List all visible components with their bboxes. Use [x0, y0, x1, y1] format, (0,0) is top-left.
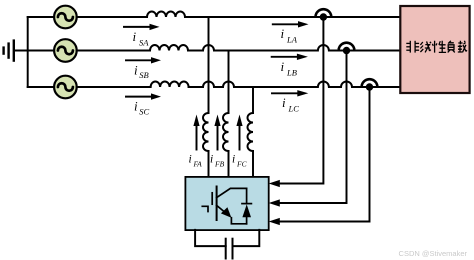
svg-text:i: i — [210, 154, 213, 166]
filter inductor LfC — [248, 113, 254, 151]
svg-text:i: i — [232, 154, 235, 166]
arrow i_LC — [272, 90, 308, 96]
wire drop phase B to filter inductor B — [228, 51, 230, 114]
arrow i_FB — [214, 115, 220, 150]
wire drop phase C to filter inductor C — [252, 87, 254, 113]
svg-text:SC: SC — [139, 106, 149, 116]
current sensor CT A — [316, 9, 331, 21]
svg-text:FA: FA — [193, 160, 203, 169]
svg-text:i: i — [134, 99, 138, 114]
capacitor C1 — [226, 239, 233, 259]
AC source B — [54, 39, 77, 62]
svg-text:CSDN @Stivemaker: CSDN @Stivemaker — [399, 249, 468, 258]
current sensor CT B — [339, 43, 354, 55]
label 非线性负载 (drawn glyphs) — [406, 41, 467, 53]
wire emitter to bottom rail — [231, 218, 246, 224]
arrow i_SC — [126, 93, 161, 99]
wire phase A to load — [185, 16, 400, 18]
converter box U1 — [185, 177, 268, 230]
inductor LsB — [150, 45, 188, 51]
IGBT Q1 gate lead — [202, 206, 208, 211]
svg-text:i: i — [189, 154, 192, 166]
feedback wire C with arrow into converter — [269, 91, 370, 225]
svg-text:i: i — [281, 59, 285, 74]
wire LfB to converter — [228, 151, 230, 177]
IGBT Q1 emitter arrow — [217, 205, 232, 217]
svg-text:i: i — [133, 29, 137, 44]
diode D1 anode lead — [246, 217, 248, 224]
arrow i_SA — [124, 24, 160, 30]
svg-text:i: i — [134, 63, 138, 78]
inductor LsA — [147, 12, 185, 17]
glyph 载 — [458, 41, 467, 53]
diode D1 triangle — [242, 204, 251, 217]
wire bus to source A — [28, 16, 54, 18]
wire LfA to converter — [208, 151, 210, 177]
wire drop phase A to filter inductor A — [208, 17, 210, 113]
wire ground to bus and source B — [15, 50, 55, 52]
arrow i_SB — [126, 57, 161, 63]
current sensor CT C — [362, 79, 377, 91]
arrow i_FC — [236, 115, 242, 150]
IGBT Q1 main bar — [216, 187, 218, 221]
arrow i_FA — [193, 115, 199, 150]
wire phase B to load with hops at x=208.5 and x=323.4 — [188, 45, 400, 51]
svg-text:SB: SB — [139, 70, 148, 80]
IGBT Q1 gate bar — [211, 193, 213, 204]
glyph 线 — [420, 41, 431, 52]
inductor LsC — [151, 82, 189, 88]
wire source A to inductor LsA — [77, 16, 147, 18]
svg-text:FB: FB — [214, 160, 225, 169]
svg-text:LB: LB — [286, 68, 297, 78]
svg-text:LA: LA — [286, 35, 298, 45]
filter inductor LfB — [223, 113, 229, 151]
wire LfC to converter — [252, 151, 254, 177]
glyph 非 — [406, 41, 419, 53]
arrow i_LA — [273, 21, 309, 27]
diode D1 bar — [242, 203, 251, 205]
wire bus vertical — [27, 17, 29, 87]
nonlinear load box — [400, 6, 469, 93]
feedback wire B with arrow into converter — [269, 55, 347, 207]
filter inductor LfA — [203, 113, 209, 151]
wire dc right drop — [233, 230, 260, 246]
glyph 性 — [432, 41, 446, 53]
svg-text:i: i — [282, 95, 286, 110]
feedback wire A with arrow into converter — [269, 21, 324, 187]
svg-text:SA: SA — [139, 37, 149, 47]
wire dc left drop — [195, 230, 226, 246]
wire bus to source C — [28, 86, 54, 88]
AC source C — [54, 76, 77, 99]
wire phase C to load with hops at x=208.5, 228.5, 323.4, 346.5 — [189, 82, 401, 88]
IGBT Q1 collector — [217, 188, 247, 197]
arrow i_LB — [272, 54, 308, 60]
ground — [4, 41, 14, 61]
svg-text:FC: FC — [236, 160, 248, 169]
wire source B to inductor LsB — [77, 50, 150, 52]
svg-text:LC: LC — [288, 104, 300, 114]
diode D1 cathode lead — [246, 188, 248, 203]
AC source A — [54, 6, 77, 29]
svg-text:i: i — [281, 26, 285, 41]
glyph 负 — [448, 41, 455, 53]
wire source C to inductor LsC — [77, 86, 151, 88]
